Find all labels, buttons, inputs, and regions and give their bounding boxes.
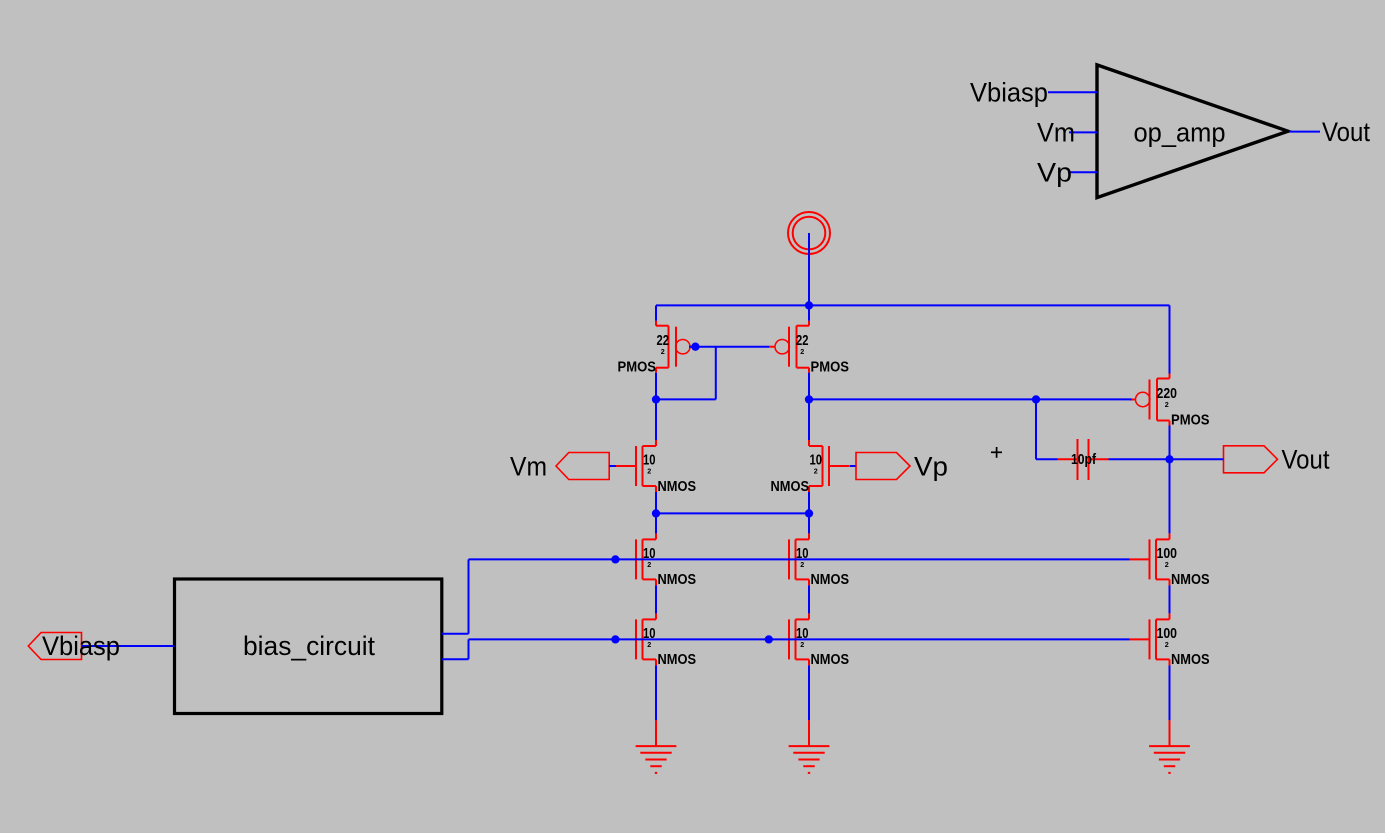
- svg-text:PMOS: PMOS: [811, 360, 850, 376]
- svg-text:NMOS: NMOS: [1171, 572, 1210, 588]
- svg-text:2: 2: [800, 562, 804, 569]
- svg-text:NMOS: NMOS: [658, 652, 697, 668]
- svg-text:2: 2: [661, 349, 665, 356]
- svg-text:Vout: Vout: [1322, 117, 1370, 147]
- svg-text:10: 10: [796, 626, 809, 642]
- svg-text:100: 100: [1157, 546, 1178, 562]
- svg-text:Vp: Vp: [914, 452, 948, 482]
- svg-text:2: 2: [1165, 402, 1169, 409]
- svg-text:Vbiasp: Vbiasp: [42, 631, 120, 661]
- svg-text:NMOS: NMOS: [658, 479, 697, 495]
- svg-text:op_amp: op_amp: [1134, 118, 1226, 148]
- svg-text:Vout: Vout: [1282, 444, 1330, 474]
- svg-text:2: 2: [800, 349, 804, 356]
- svg-text:2: 2: [1165, 562, 1169, 569]
- svg-text:PMOS: PMOS: [1171, 412, 1210, 428]
- svg-text:220: 220: [1157, 386, 1178, 402]
- svg-text:22: 22: [796, 333, 809, 349]
- svg-text:2: 2: [647, 469, 651, 476]
- svg-text:10pf: 10pf: [1071, 452, 1096, 468]
- svg-text:10: 10: [643, 453, 656, 469]
- svg-text:NMOS: NMOS: [771, 479, 810, 495]
- svg-text:10: 10: [643, 626, 656, 642]
- svg-text:Vbiasp: Vbiasp: [970, 78, 1048, 108]
- svg-text:22: 22: [657, 333, 670, 349]
- svg-text:2: 2: [647, 562, 651, 569]
- svg-text:2: 2: [1165, 642, 1169, 649]
- svg-text:PMOS: PMOS: [618, 360, 657, 376]
- svg-text:NMOS: NMOS: [811, 652, 850, 668]
- svg-text:2: 2: [814, 469, 818, 476]
- svg-text:Vm: Vm: [1037, 118, 1075, 148]
- svg-text:bias_circuit: bias_circuit: [243, 631, 375, 661]
- svg-text:NMOS: NMOS: [811, 572, 850, 588]
- svg-text:2: 2: [800, 642, 804, 649]
- svg-text:NMOS: NMOS: [658, 572, 697, 588]
- svg-text:2: 2: [647, 642, 651, 649]
- svg-text:Vp: Vp: [1037, 158, 1072, 188]
- svg-text:10: 10: [810, 453, 823, 469]
- svg-text:10: 10: [796, 546, 809, 562]
- svg-text:10: 10: [643, 546, 656, 562]
- svg-text:Vm: Vm: [510, 451, 547, 481]
- svg-text:NMOS: NMOS: [1171, 652, 1210, 668]
- svg-text:100: 100: [1157, 626, 1178, 642]
